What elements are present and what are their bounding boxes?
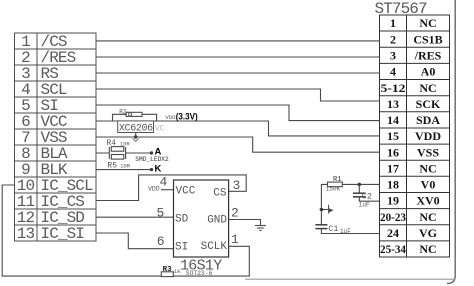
svg-text:1uF: 1uF xyxy=(340,228,351,235)
svg-text:VDD: VDD xyxy=(165,114,176,121)
svg-text:R3: R3 xyxy=(163,266,173,274)
svg-text:150K: 150K xyxy=(326,185,341,192)
svg-text:NC: NC xyxy=(419,210,436,224)
svg-text:XV0: XV0 xyxy=(416,194,439,208)
svg-text:16: 16 xyxy=(387,145,399,159)
svg-text:CS1B: CS1B xyxy=(413,32,442,46)
svg-text:CS: CS xyxy=(213,188,227,200)
svg-text:17: 17 xyxy=(387,162,399,176)
svg-text:/RES: /RES xyxy=(414,49,442,63)
svg-text:13: 13 xyxy=(387,97,399,111)
svg-text:VDD: VDD xyxy=(148,185,160,192)
svg-text:1: 1 xyxy=(231,232,239,247)
svg-text:1K: 1K xyxy=(174,268,181,275)
svg-text:A0: A0 xyxy=(421,65,436,79)
svg-text:(3.3V): (3.3V) xyxy=(176,112,198,123)
svg-text:4: 4 xyxy=(160,174,168,189)
svg-text:SMD_LEDX2: SMD_LEDX2 xyxy=(135,156,169,163)
svg-text:R1: R1 xyxy=(333,176,341,184)
svg-text:19: 19 xyxy=(387,194,399,208)
svg-text:4: 4 xyxy=(390,65,396,79)
svg-text:14: 14 xyxy=(387,113,399,127)
svg-text:VG: VG xyxy=(419,226,437,240)
svg-text:6: 6 xyxy=(157,234,165,249)
svg-text:3: 3 xyxy=(233,178,241,193)
svg-text:A: A xyxy=(155,147,162,158)
svg-text:SI: SI xyxy=(175,242,188,254)
svg-text:10R: 10R xyxy=(120,163,131,170)
svg-text:VC: VC xyxy=(155,124,165,133)
svg-text:20-23: 20-23 xyxy=(380,210,406,224)
svg-text:XC6206: XC6206 xyxy=(119,124,153,135)
svg-text:NC: NC xyxy=(419,16,436,30)
svg-text:GND: GND xyxy=(207,215,227,227)
svg-text:SOT23-6: SOT23-6 xyxy=(186,270,213,277)
svg-text:V0: V0 xyxy=(421,178,436,192)
svg-text:3: 3 xyxy=(390,49,396,63)
svg-text:R2: R2 xyxy=(119,108,127,115)
svg-text:IC_SI: IC_SI xyxy=(41,225,85,243)
svg-text:NC: NC xyxy=(419,162,436,176)
svg-text:1: 1 xyxy=(390,16,396,30)
svg-text:2: 2 xyxy=(231,206,239,221)
svg-text:1uF: 1uF xyxy=(359,202,370,209)
svg-text:2: 2 xyxy=(390,32,396,46)
svg-text:15: 15 xyxy=(387,129,399,143)
svg-text:VCC: VCC xyxy=(176,186,196,198)
svg-text:R5: R5 xyxy=(107,162,117,171)
svg-text:SD: SD xyxy=(175,214,189,226)
svg-text:10R: 10R xyxy=(120,141,131,148)
svg-text:25-34: 25-34 xyxy=(380,242,406,256)
svg-text:SDA: SDA xyxy=(416,113,440,127)
svg-text:13: 13 xyxy=(17,225,35,243)
svg-text:R4: R4 xyxy=(107,139,117,148)
svg-text:C2: C2 xyxy=(362,192,372,202)
svg-text:5-12: 5-12 xyxy=(381,81,406,95)
svg-text:K: K xyxy=(155,164,162,175)
svg-text:VSS: VSS xyxy=(417,145,439,159)
svg-text:5: 5 xyxy=(157,206,165,221)
svg-text:VDD: VDD xyxy=(415,129,441,143)
svg-text:24: 24 xyxy=(387,226,399,240)
svg-text:SCK: SCK xyxy=(416,97,441,111)
svg-text:NC: NC xyxy=(419,242,436,256)
svg-text:18: 18 xyxy=(387,178,399,192)
svg-text:NC: NC xyxy=(419,81,436,95)
svg-text:SCLK: SCLK xyxy=(201,241,228,253)
svg-text:C1: C1 xyxy=(328,224,338,234)
